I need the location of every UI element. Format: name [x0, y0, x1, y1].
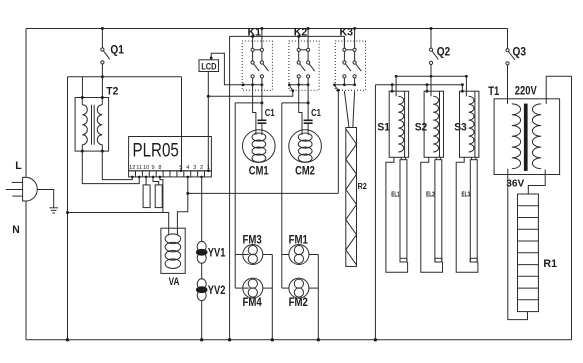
wire T1 right to R1 top — [528, 170, 545, 195]
svg-text:YV2: YV2 — [208, 285, 226, 297]
wire pin8 to VA-left wire — [160, 177, 163, 213]
pin junction dots — [131, 170, 210, 179]
svg-text:36V: 36V — [506, 177, 524, 189]
svg-text:Q3: Q3 — [513, 44, 527, 58]
fan motor FM3 — [235, 245, 272, 265]
resistor R2 — [346, 128, 357, 267]
svg-text:4: 4 — [186, 165, 189, 171]
svg-text:CM1: CM1 — [249, 166, 269, 178]
label C1 (CM1) — [265, 107, 275, 119]
label R1 — [543, 258, 557, 270]
label Q1 — [110, 43, 124, 57]
transformer T1 box — [494, 99, 559, 175]
svg-text:C1: C1 — [311, 107, 321, 119]
label FM1 — [289, 234, 309, 246]
label Q3 — [513, 44, 527, 58]
svg-text:T2: T2 — [106, 86, 118, 98]
wire to K2 coil rail — [208, 85, 294, 97]
label C1 (CM2) — [311, 107, 321, 119]
wire T1 left to R1 bottom — [508, 169, 528, 320]
svg-text:FM4: FM4 — [243, 297, 263, 309]
plug XP — [6, 177, 37, 201]
wire K3 poles to R2 — [344, 91, 354, 127]
wire pin12/pin11 drops — [0, 0, 1, 1]
wire pin4 to VA right — [177, 193, 187, 235]
label 36V — [506, 177, 524, 189]
node K3 right pole on top bus — [353, 27, 356, 38]
wire left rail upper (L line) — [25, 29, 27, 178]
label EL3 — [462, 191, 471, 198]
svg-text:9: 9 — [151, 165, 154, 171]
fan motor FM2 — [282, 278, 319, 298]
label S3 — [454, 121, 467, 133]
svg-text:N: N — [12, 224, 20, 236]
svg-text:S1: S1 — [377, 121, 390, 133]
label N — [12, 224, 20, 236]
svg-text:C1: C1 — [265, 107, 275, 119]
wire K2 rail — [288, 83, 308, 86]
svg-text:11: 11 — [136, 165, 142, 171]
wire FM34 right rail — [271, 255, 274, 342]
svg-text:EL2: EL2 — [426, 191, 435, 198]
transformer T2 — [75, 96, 109, 153]
component fuse F1 — [143, 177, 150, 208]
switch Q1 — [101, 27, 110, 98]
switch Q2 — [429, 27, 438, 76]
relay contacts K2 — [289, 38, 319, 90]
wire plug cord — [37, 190, 53, 208]
svg-text:CM2: CM2 — [295, 166, 315, 178]
wire Q1 feed horizontal — [68, 76, 182, 78]
pin numbers 12-8 and 5-1 — [129, 165, 210, 171]
wire pin4 to K3 rail — [188, 85, 340, 194]
label CM1 — [249, 166, 269, 178]
label FM4 — [243, 297, 263, 309]
fan motor FM1 — [282, 245, 319, 265]
label K2 — [294, 27, 308, 39]
label YV1 — [208, 247, 226, 259]
wire mid bus — [230, 36, 345, 48]
wire FM12 left rail — [281, 103, 283, 288]
transformer T1 primary — [512, 104, 521, 169]
svg-text:T1: T1 — [488, 86, 499, 98]
svg-text:220V: 220V — [515, 86, 537, 98]
transformer T1 core — [524, 104, 528, 171]
label EL1 — [391, 191, 400, 198]
wire/capacitor C1 branch of CM2 — [282, 85, 313, 135]
svg-text:FM1: FM1 — [289, 234, 309, 246]
label YV2 — [208, 285, 226, 297]
wire T2 primary riser — [81, 77, 83, 98]
svg-text:5: 5 — [179, 165, 182, 171]
svg-text:S3: S3 — [454, 121, 467, 133]
wire pin2 to valves — [201, 177, 203, 242]
transformer T1 secondary — [532, 104, 541, 169]
svg-text:EL1: EL1 — [391, 191, 400, 198]
wire left rail lower (N line) — [25, 201, 27, 340]
wire FM12 right rail — [317, 255, 320, 342]
component fuse F2 — [153, 177, 162, 208]
svg-text:FM3: FM3 — [243, 234, 262, 246]
node K2 right pole on top bus — [307, 27, 310, 38]
svg-text:K1: K1 — [248, 27, 262, 39]
label VA — [169, 276, 180, 288]
svg-text:EL3: EL3 — [462, 191, 471, 198]
valve YV1 — [196, 241, 207, 263]
svg-text:YV1: YV1 — [208, 247, 226, 259]
label 220V — [515, 86, 537, 98]
label T1 — [488, 86, 499, 98]
wire bottom N bus — [26, 339, 572, 341]
svg-text:R1: R1 — [543, 258, 557, 270]
wire mid-bus rail x229 to bottom — [228, 36, 231, 341]
wire T2 sec left to pin11 — [82, 151, 139, 184]
svg-text:L: L — [15, 160, 22, 172]
label R2 — [358, 182, 368, 191]
label K3 — [340, 27, 354, 39]
wire/capacitor C1 branch of CM1 — [235, 85, 266, 135]
wire K1 rail — [242, 83, 262, 86]
svg-text:R2: R2 — [358, 182, 368, 191]
resistor R1 — [518, 194, 539, 312]
svg-text:Q2: Q2 — [437, 44, 451, 58]
node K1 right pole on top bus — [260, 27, 263, 38]
label T2 — [106, 86, 118, 98]
component VA box — [161, 228, 185, 273]
relay contacts K3 — [335, 38, 365, 90]
svg-text:3: 3 — [193, 165, 196, 171]
wire T1 sec top to right rail — [546, 76, 571, 104]
svg-text:12: 12 — [129, 165, 135, 171]
fan motor FM4 — [235, 278, 272, 298]
wire pin4 down — [186, 177, 189, 195]
label CM2 — [295, 166, 315, 178]
label K1 — [248, 27, 262, 39]
wire K3 rail — [333, 83, 355, 86]
controller PLR05 box — [129, 137, 212, 171]
heater S3/EL3 column — [456, 75, 479, 272]
ground — [49, 208, 58, 213]
svg-text:S2: S2 — [415, 121, 428, 133]
svg-text:2: 2 — [200, 165, 203, 171]
wire VA left feed — [66, 211, 169, 235]
svg-text:LCD: LCD — [201, 62, 216, 73]
wire LCD to K1 — [210, 53, 243, 85]
label EL2 — [426, 191, 435, 198]
wire T2 sec right to pin12 — [102, 151, 132, 180]
wire LCD down / junction — [207, 72, 210, 171]
svg-text:8: 8 — [158, 165, 161, 171]
wire heater bus upper — [396, 75, 466, 77]
heater S2/EL2 column — [421, 75, 444, 272]
motor CM1 — [242, 130, 275, 163]
wire YV1-YV2 — [201, 263, 203, 279]
node K2 left pole on mid bus — [297, 35, 300, 38]
label S2 — [415, 121, 428, 133]
valve YV2 — [196, 279, 207, 301]
relay contacts K1 — [242, 38, 272, 90]
svg-text:VA: VA — [169, 276, 180, 288]
terminal strip PLR05 pins — [129, 171, 212, 177]
wire left vertical rail x67 — [66, 77, 69, 342]
label LCD — [201, 62, 216, 73]
wire top L bus — [26, 28, 508, 30]
label S1 — [377, 121, 390, 133]
switch Q3 — [506, 29, 515, 104]
motor CM2 — [289, 130, 322, 163]
svg-text:K3: K3 — [340, 27, 354, 39]
node K1 left pole on mid bus — [251, 35, 254, 38]
wire Q1 feed into PLR05 pin5 — [180, 77, 183, 172]
label FM3 — [243, 234, 262, 246]
svg-text:FM2: FM2 — [289, 297, 308, 309]
wire right rail — [571, 76, 573, 340]
svg-text:10: 10 — [143, 165, 149, 171]
wire heater bus lower — [375, 84, 462, 86]
svg-text:K2: K2 — [294, 27, 308, 39]
wire YV2 to bus — [200, 301, 203, 342]
label PLR05 — [133, 140, 179, 162]
svg-text:PLR05: PLR05 — [133, 140, 179, 162]
svg-text:Q1: Q1 — [110, 43, 124, 57]
wire FM34 left rail — [234, 103, 236, 288]
wire heater return rail — [374, 85, 377, 342]
label L — [15, 160, 22, 172]
display LCD box — [199, 60, 219, 72]
heater S1/EL1 column — [386, 75, 409, 272]
label Q2 — [437, 44, 451, 58]
label FM2 — [289, 297, 308, 309]
